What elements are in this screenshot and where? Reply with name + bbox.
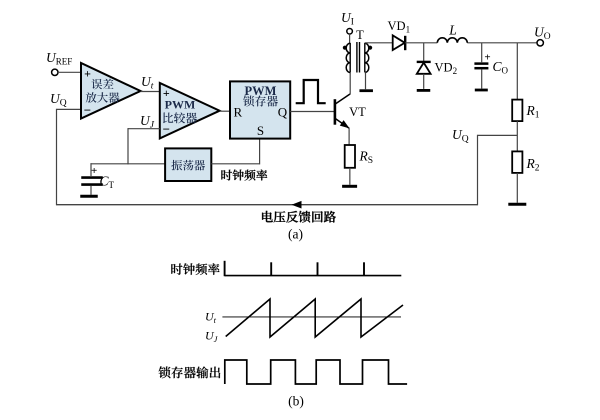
svg-text:S: S xyxy=(257,123,264,138)
svg-text:(b): (b) xyxy=(288,394,304,409)
svg-text:(a): (a) xyxy=(288,227,303,242)
svg-text:−: − xyxy=(163,122,170,137)
svg-text:+: + xyxy=(84,67,91,81)
svg-text:VT: VT xyxy=(349,105,366,119)
svg-text:T: T xyxy=(356,28,364,42)
svg-text:+: + xyxy=(484,52,490,64)
svg-text:PWM: PWM xyxy=(165,98,196,112)
svg-text:L: L xyxy=(448,23,457,38)
svg-text:R: R xyxy=(233,105,242,120)
svg-text:Q: Q xyxy=(278,105,288,120)
svg-text:PWM: PWM xyxy=(245,84,277,98)
svg-text:−: − xyxy=(84,103,91,118)
svg-text:+: + xyxy=(91,165,97,177)
